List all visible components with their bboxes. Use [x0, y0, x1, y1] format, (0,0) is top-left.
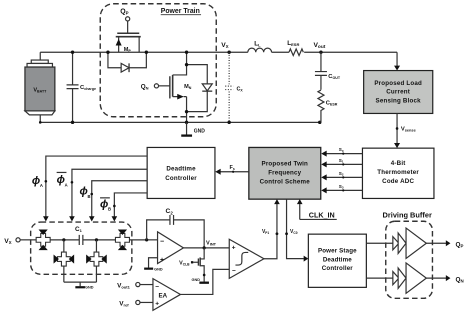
- wire top rail: [40, 51, 397, 53]
- net S2: [321, 171, 362, 181]
- op-amp integrator U1: [147, 232, 184, 264]
- comparator U2 (schmitt): [229, 239, 264, 278]
- svg-text:VINT: VINT: [206, 240, 217, 246]
- svg-text:B: B: [87, 194, 90, 199]
- svg-text:GND: GND: [85, 286, 94, 290]
- svg-text:A: A: [65, 182, 68, 187]
- svg-text:Control Scheme: Control Scheme: [260, 179, 311, 186]
- svg-text:Frequency: Frequency: [268, 170, 301, 177]
- switch S-A: [36, 230, 51, 251]
- resistor CESR: [318, 90, 338, 122]
- transistor reset VCLB: [179, 248, 205, 282]
- svg-text:Power Train: Power Train: [161, 8, 200, 15]
- switch S-B: [115, 230, 129, 251]
- capacitor Cx (dotted parasitic): [225, 52, 233, 122]
- junction dots C1: [62, 238, 98, 241]
- junction dots bottom rail: [39, 121, 321, 124]
- svg-text:Controller: Controller: [165, 175, 197, 182]
- net S0: [321, 147, 362, 157]
- net Vsense: [394, 113, 417, 148]
- buffer chain QN: [366, 263, 463, 293]
- transistor MN: [170, 52, 192, 122]
- svg-text:Proposed Load: Proposed Load: [374, 80, 422, 87]
- inductor LL: [248, 40, 272, 52]
- svg-text:−: −: [160, 239, 164, 246]
- buffer chain QP: [366, 228, 463, 258]
- svg-text:Code ADC: Code ADC: [382, 178, 414, 185]
- net S1: [321, 158, 362, 168]
- svg-text:Deadtime: Deadtime: [323, 256, 352, 263]
- ground GND (C1 switches): [75, 286, 93, 290]
- svg-text:Vsense: Vsense: [401, 126, 417, 132]
- ground GND (power stage): [181, 122, 205, 136]
- capacitor C1: [50, 226, 115, 245]
- ground GND (op-amp plus input): [144, 258, 163, 272]
- node Vout: [313, 42, 325, 50]
- capacitor COUT: [315, 52, 341, 90]
- svg-text:Proposed Twin: Proposed Twin: [262, 161, 309, 168]
- diode DN (MN body diode): [187, 65, 213, 112]
- wire bottom rail: [40, 121, 320, 123]
- net phiB-bar: [100, 193, 147, 222]
- node QN terminal: [141, 83, 170, 90]
- battery VBATT: [25, 52, 55, 122]
- transistor MP: [116, 33, 141, 53]
- svg-text:+: +: [232, 244, 236, 251]
- node VX top: [221, 42, 228, 49]
- power train dashed box: [100, 4, 216, 117]
- net VC0: [285, 199, 308, 262]
- net Fs: [215, 165, 249, 175]
- wire Vout to load sensing block: [394, 52, 400, 70]
- switch S-D: [86, 252, 107, 266]
- block Power Stage Deadtime Controller: [308, 234, 366, 287]
- net phiA-bar: [57, 169, 147, 221]
- svg-text:GND: GND: [192, 278, 201, 282]
- net phiA: [32, 156, 147, 221]
- block Proposed Load Current Sensing: [364, 71, 433, 114]
- node QP terminal: [120, 8, 130, 33]
- svg-text:−: −: [155, 283, 159, 290]
- svg-text:4-Bit: 4-Bit: [391, 160, 406, 167]
- capacitor Ccharge: [67, 52, 96, 122]
- wire C1 left leg down: [63, 240, 65, 252]
- net VINT: [183, 240, 229, 249]
- wire EA to comparator: [180, 269, 229, 294]
- switched capacitor dashed box: [31, 222, 132, 274]
- svg-text:+: +: [160, 257, 164, 264]
- svg-text:Current: Current: [386, 89, 410, 96]
- wire switch S-D legs: [95, 240, 97, 282]
- net S3: [321, 184, 362, 194]
- wire switch S-C legs: [63, 252, 65, 282]
- svg-text:CLK_IN: CLK_IN: [309, 211, 335, 220]
- net CLK_IN: [297, 199, 337, 220]
- label Cx: [236, 87, 243, 93]
- resistor LESR: [287, 40, 303, 56]
- svg-text:Power Stage: Power Stage: [318, 248, 357, 255]
- svg-text:EA: EA: [159, 293, 168, 300]
- svg-text:Thermometer: Thermometer: [377, 169, 419, 176]
- net phiB: [79, 181, 147, 222]
- svg-text:Driving Buffer: Driving Buffer: [383, 211, 432, 220]
- net VP1: [262, 199, 280, 259]
- svg-text:A: A: [40, 183, 43, 188]
- svg-text:B: B: [108, 207, 111, 212]
- node VX lower terminal: [4, 238, 36, 245]
- svg-text:−: −: [232, 267, 236, 274]
- junction dots top rail: [71, 51, 323, 54]
- switch S-C: [54, 252, 75, 266]
- junction dots transistor MN column: [185, 63, 188, 113]
- svg-text:GND: GND: [194, 128, 206, 134]
- svg-text:Deadtime: Deadtime: [166, 165, 196, 172]
- ground GND (reset transistor): [192, 278, 209, 284]
- capacitor C2 feedback: [145, 208, 204, 248]
- error amplifier EA: [117, 279, 180, 311]
- block Proposed Twin Frequency Control Scheme: [249, 147, 321, 199]
- driving buffer dashed box: [383, 211, 433, 299]
- wire switch S-B to op-amp: [129, 239, 146, 241]
- svg-text:GND: GND: [154, 267, 163, 271]
- svg-text:Controller: Controller: [322, 265, 354, 272]
- svg-text:Sensing Block: Sensing Block: [376, 97, 422, 104]
- block 4-bit Thermometer Code ADC: [362, 148, 434, 198]
- wire to ground C1: [64, 282, 97, 286]
- svg-text:+: +: [155, 300, 159, 307]
- diode DP (MP body diode): [108, 52, 146, 72]
- block Deadtime Controller: [147, 147, 215, 198]
